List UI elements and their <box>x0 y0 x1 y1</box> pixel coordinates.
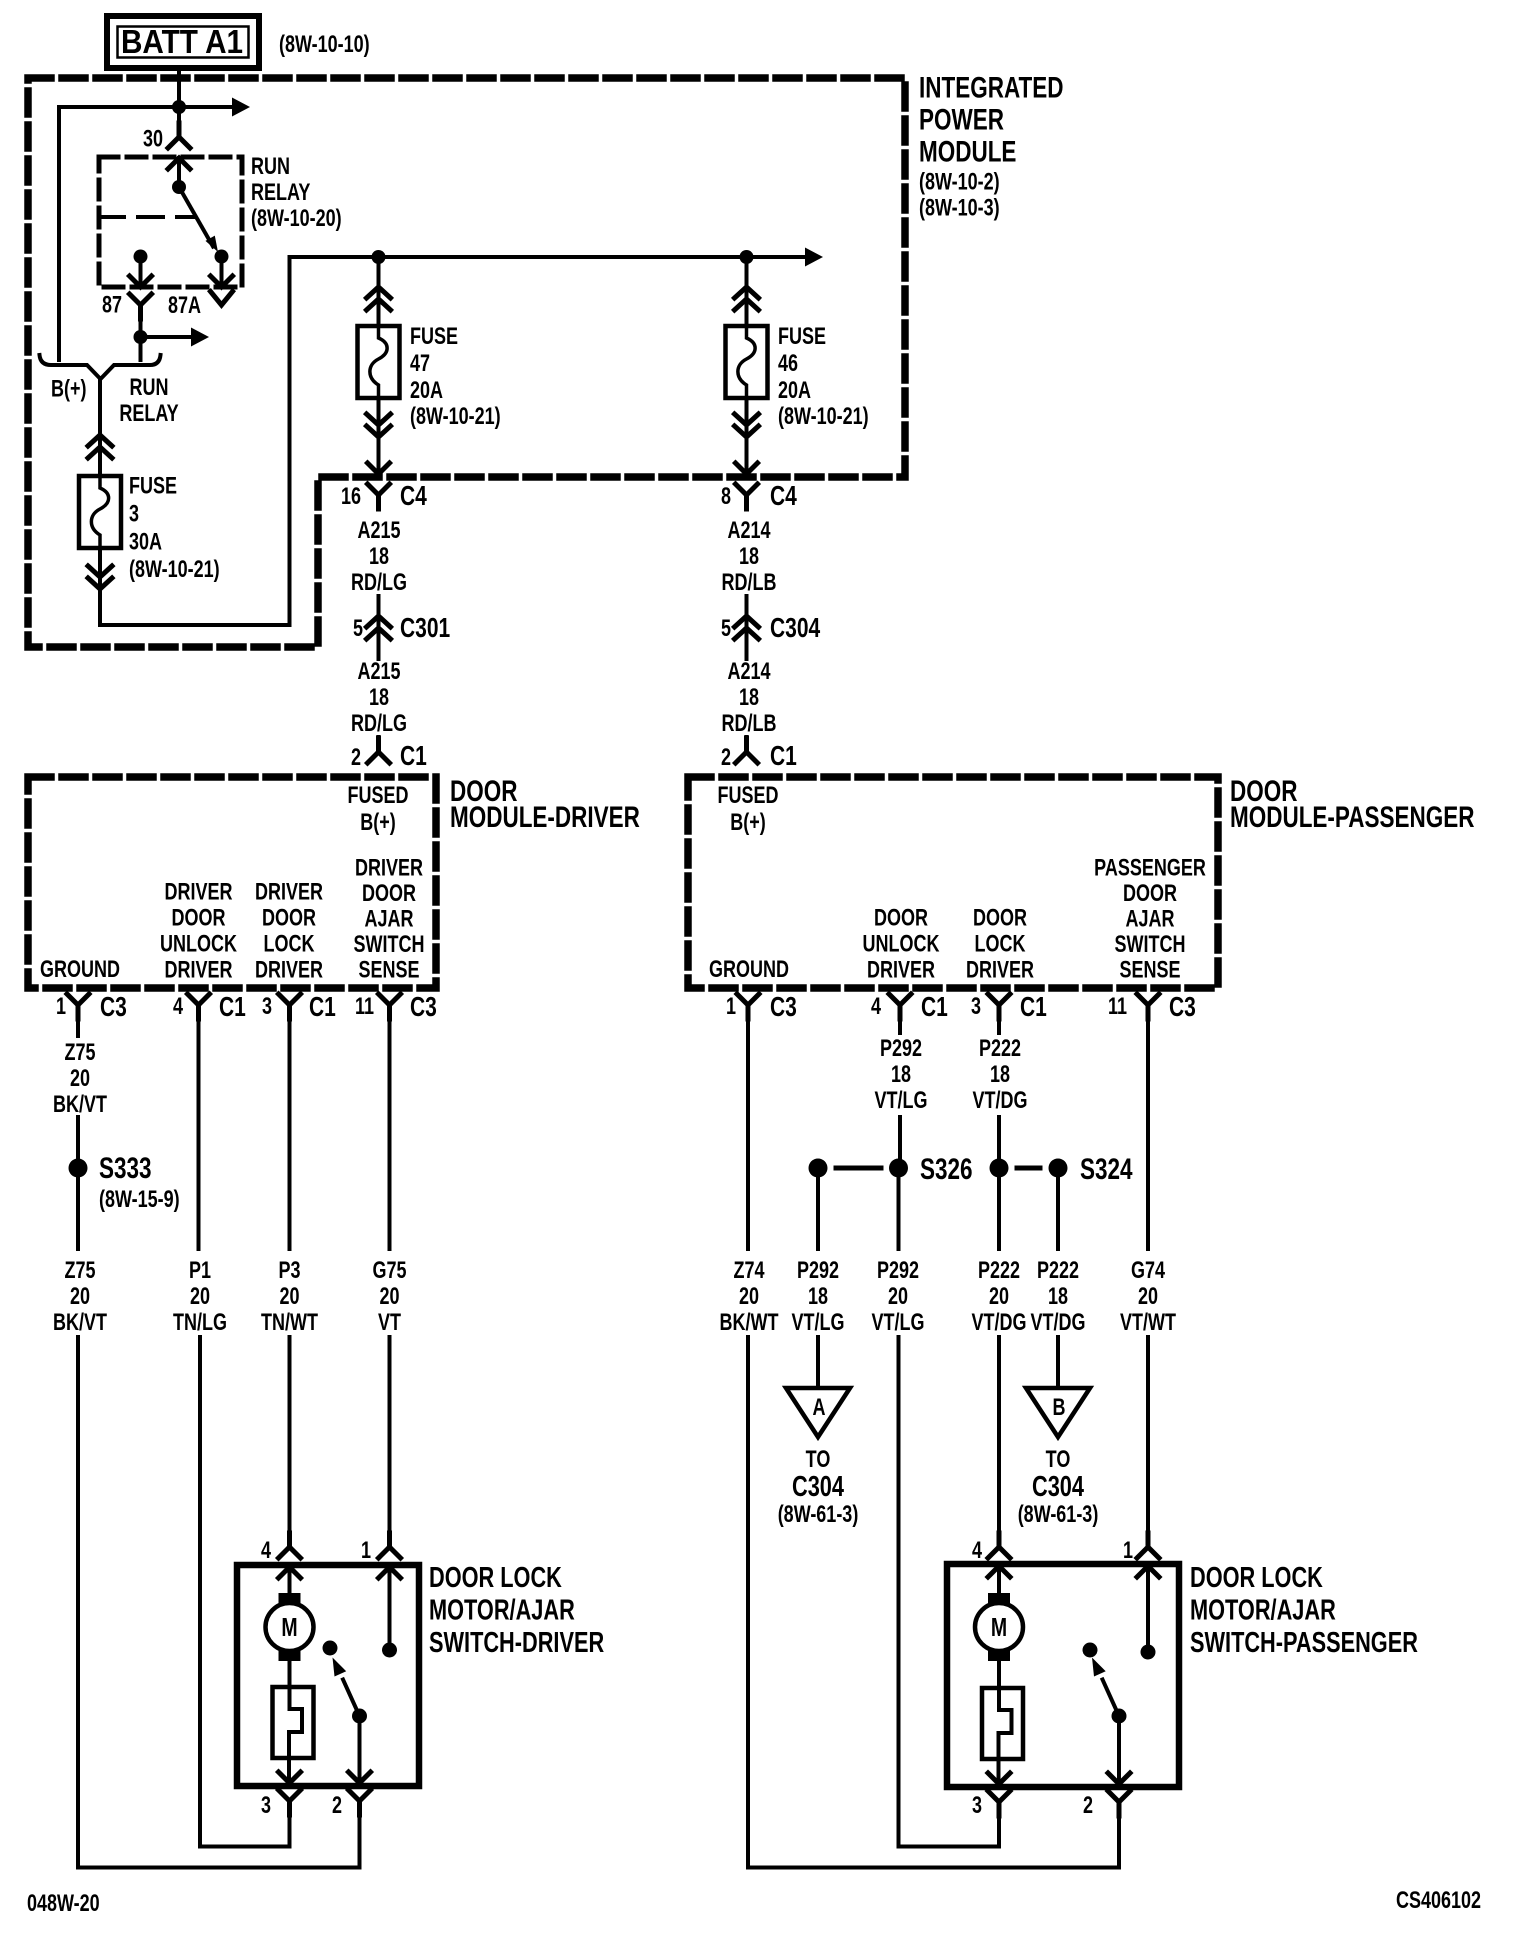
lock motor M driver <box>266 1593 314 1661</box>
wire arm pivot to pin 2 driver <box>349 1716 371 1783</box>
off-page connector B <box>1026 1388 1090 1437</box>
svg-text:C1: C1 <box>309 992 336 1023</box>
svg-text:20: 20 <box>70 1066 90 1092</box>
svg-text:18: 18 <box>369 544 389 570</box>
svg-text:TO: TO <box>806 1447 831 1473</box>
passenger module pin 4 connector fork <box>889 994 911 1019</box>
svg-text:SWITCH-DRIVER: SWITCH-DRIVER <box>429 1627 604 1659</box>
svg-text:3: 3 <box>972 1793 982 1819</box>
svg-text:RD/LG: RD/LG <box>351 711 407 737</box>
svg-text:C304: C304 <box>770 613 820 644</box>
svg-text:DRIVER: DRIVER <box>165 957 233 983</box>
label FUSE 46 20A (8W-10-21) <box>778 324 869 430</box>
svg-text:4: 4 <box>972 1538 982 1564</box>
connector C1 pin 2 fork <box>368 738 390 763</box>
relay coil linkage dashed line <box>99 215 195 219</box>
svg-text:TO: TO <box>1046 1447 1071 1473</box>
svg-text:3: 3 <box>129 501 139 527</box>
svg-text:B(+): B(+) <box>730 810 765 836</box>
svg-text:M: M <box>991 1612 1007 1641</box>
label TO C304 (8W-61-3) right <box>1018 1447 1099 1528</box>
svg-text:DRIVER: DRIVER <box>867 957 935 983</box>
relay contact 87 node <box>134 250 148 264</box>
svg-text:20: 20 <box>70 1284 90 1310</box>
wire bus riser up <box>288 257 292 625</box>
ajar switch housing passenger <box>982 1688 1023 1759</box>
svg-text:SWITCH: SWITCH <box>1115 932 1186 958</box>
svg-text:C4: C4 <box>400 481 427 512</box>
wire P292 18 to off-page connector A <box>816 1337 820 1388</box>
wire fuse 3 output down <box>98 548 102 625</box>
motor pin 1 connector fork driver <box>379 1533 401 1558</box>
pin 87 connector fork <box>130 294 152 319</box>
svg-text:46: 46 <box>778 351 798 377</box>
svg-text:8: 8 <box>721 484 731 510</box>
svg-text:87A: 87A <box>168 293 201 319</box>
label DRIVER DOOR LOCK DRIVER <box>255 879 323 983</box>
wire label P222 20 VT/DG <box>972 1258 1027 1336</box>
wire label Z75 20 BK/VT lower <box>53 1258 107 1336</box>
wire label A215 18 RD/LG upper <box>351 518 407 596</box>
svg-text:11: 11 <box>1108 994 1127 1020</box>
wire G75 ajar sense to motor pin 1 <box>388 1337 392 1533</box>
wire motor to ajar switch driver <box>288 1661 292 1687</box>
svg-text:18: 18 <box>891 1062 911 1088</box>
svg-text:048W-20: 048W-20 <box>27 1891 100 1917</box>
wire P292 20 to motor pin 3 passenger <box>897 1337 901 1847</box>
svg-text:5: 5 <box>721 616 731 642</box>
svg-text:M: M <box>281 1612 297 1641</box>
svg-text:87: 87 <box>102 292 122 318</box>
svg-text:3: 3 <box>971 994 981 1020</box>
svg-text:C1: C1 <box>1020 992 1047 1023</box>
svg-text:20: 20 <box>190 1284 210 1310</box>
wire P222 lock upper segment <box>997 1005 1001 1033</box>
splice S333 <box>69 1159 88 1178</box>
svg-text:P292: P292 <box>877 1258 919 1284</box>
wire into passenger door module <box>745 737 749 752</box>
svg-text:MOTOR/AJAR: MOTOR/AJAR <box>429 1595 575 1627</box>
svg-text:AJAR: AJAR <box>365 906 414 932</box>
svg-text:C1: C1 <box>219 992 246 1023</box>
svg-text:GROUND: GROUND <box>709 957 789 983</box>
svg-text:P3: P3 <box>278 1258 300 1284</box>
label TO C304 (8W-61-3) left <box>778 1447 859 1528</box>
wire P292 20 below splice <box>897 1168 901 1249</box>
label INTEGRATED POWER MODULE (8W-10-2) (8W-10-3) <box>919 70 1064 221</box>
wire chevrons fuse 47 output <box>367 414 391 437</box>
driver module pin 4 connector fork <box>188 994 210 1019</box>
svg-text:SENSE: SENSE <box>358 957 419 983</box>
svg-text:C3: C3 <box>1169 992 1196 1023</box>
svg-text:11: 11 <box>355 994 374 1020</box>
wire P222 to splice S324 <box>997 1117 1001 1168</box>
svg-text:A214: A214 <box>727 518 770 544</box>
motor pin 1 connector fork passenger <box>1137 1533 1159 1558</box>
label DOOR MODULE-DRIVER <box>450 774 640 834</box>
wire Z75 ground to door lock switch <box>76 1337 80 1868</box>
svg-text:(8W-61-3): (8W-61-3) <box>778 1502 859 1528</box>
svg-text:RD/LG: RD/LG <box>351 570 407 596</box>
label FUSED B(+) driver <box>348 783 409 836</box>
svg-text:DRIVER: DRIVER <box>165 879 233 905</box>
svg-text:SWITCH: SWITCH <box>354 932 425 958</box>
wire Z74 ground upper segment <box>746 1005 750 1249</box>
door lock motor/ajar switch-driver box <box>237 1565 419 1786</box>
svg-text:G75: G75 <box>372 1258 406 1284</box>
svg-text:BK/VT: BK/VT <box>53 1310 107 1336</box>
passenger module pin 3 connector fork <box>988 994 1010 1019</box>
svg-text:3: 3 <box>262 994 272 1020</box>
svg-text:20A: 20A <box>778 378 811 404</box>
motor pin 1 terminal arrow passenger <box>1137 1566 1159 1652</box>
wire label P222 18 VT/DG upper <box>973 1036 1028 1114</box>
svg-text:LOCK: LOCK <box>264 931 316 957</box>
svg-text:MODULE-DRIVER: MODULE-DRIVER <box>450 800 640 834</box>
svg-text:4: 4 <box>871 994 881 1020</box>
svg-text:C1: C1 <box>921 992 948 1023</box>
connector C4 pin 8 <box>736 484 758 509</box>
motor pin 1 terminal arrow driver <box>379 1567 401 1650</box>
svg-text:RD/LB: RD/LB <box>722 570 777 596</box>
fuse F46 <box>726 326 768 398</box>
wire into connector C301 <box>377 596 381 659</box>
svg-text:P292: P292 <box>880 1036 922 1062</box>
run relay K1 dashed box <box>99 157 242 287</box>
wire G74 to motor pin 1 passenger <box>1146 1337 1150 1533</box>
relay contact 87A terminal arrow <box>211 257 233 288</box>
arrow fuse 46 wire into connector C4 <box>736 463 758 474</box>
wire chevrons fuse 46 feed <box>735 287 759 310</box>
svg-text:1: 1 <box>361 1538 371 1564</box>
svg-text:C3: C3 <box>100 992 127 1023</box>
svg-text:PASSENGER: PASSENGER <box>1094 855 1206 881</box>
wire P292 unlock upper segment <box>898 1005 902 1033</box>
label RUN RELAY feed <box>119 375 178 427</box>
wire label G75 20 VT <box>372 1258 406 1336</box>
connector C1 pin 2 fork passenger <box>736 738 758 763</box>
motor pin 2 connector fork passenger <box>1108 1791 1130 1816</box>
svg-text:C304: C304 <box>792 1471 845 1503</box>
svg-text:20: 20 <box>989 1284 1009 1310</box>
svg-text:18: 18 <box>739 685 759 711</box>
svg-text:G74: G74 <box>1131 1258 1165 1284</box>
svg-text:FUSED: FUSED <box>718 783 779 809</box>
svg-text:LOCK: LOCK <box>975 931 1027 957</box>
wire fuse 3 output to bus riser <box>100 623 290 627</box>
svg-text:18: 18 <box>369 685 389 711</box>
pin 30 connector fork <box>168 123 190 148</box>
wire ajar switch to pin 3 driver <box>279 1758 301 1783</box>
motor pin 3 connector fork passenger <box>988 1791 1010 1816</box>
passenger module pin 11 connector fork <box>1137 994 1159 1019</box>
ajar switch arm pivot node passenger <box>1112 1709 1127 1724</box>
wire fused B(+) bus with arrow <box>290 248 824 267</box>
wire label P222 18 VT/DG branch <box>1031 1258 1086 1336</box>
svg-text:(8W-10-10): (8W-10-10) <box>279 32 370 58</box>
svg-text:C301: C301 <box>400 613 450 644</box>
wire bus to fuse 46 <box>745 257 749 326</box>
wire fuse 46 output <box>745 398 749 474</box>
wire label A214 18 RD/LB upper <box>722 518 777 596</box>
svg-text:P222: P222 <box>978 1258 1020 1284</box>
svg-text:(8W-10-21): (8W-10-21) <box>410 404 501 430</box>
svg-text:RELAY: RELAY <box>251 180 310 206</box>
svg-text:2: 2 <box>1083 1793 1093 1819</box>
wire Z75 below splice <box>76 1176 80 1249</box>
wire motor pin 2 to ground driver <box>78 1801 360 1868</box>
svg-text:C3: C3 <box>770 992 797 1023</box>
wire B(+) feed down-left <box>57 107 61 360</box>
svg-text:VT/LG: VT/LG <box>875 1088 928 1114</box>
svg-text:S324: S324 <box>1080 1152 1133 1186</box>
ajar switch arm pivot node driver <box>352 1709 367 1724</box>
svg-text:BATT A1: BATT A1 <box>121 24 243 61</box>
relay armature switch arm <box>179 187 218 252</box>
wire G74 ajar sense upper segment <box>1146 1005 1150 1249</box>
svg-text:18: 18 <box>990 1062 1010 1088</box>
junction node run relay output <box>134 330 148 344</box>
motor pin 4 terminal arrow driver <box>279 1567 301 1594</box>
svg-text:VT/DG: VT/DG <box>972 1310 1027 1336</box>
junction node bus to fuse 47 <box>372 250 386 264</box>
svg-text:RELAY: RELAY <box>119 401 178 427</box>
svg-text:S333: S333 <box>99 1151 152 1185</box>
svg-text:VT: VT <box>378 1310 401 1336</box>
svg-text:2: 2 <box>332 1793 342 1819</box>
passenger module pin 1 connector fork <box>737 994 759 1019</box>
svg-text:DRIVER: DRIVER <box>255 957 323 983</box>
svg-text:Z75: Z75 <box>64 1258 95 1284</box>
svg-text:DOOR: DOOR <box>1123 881 1177 907</box>
svg-text:VT/WT: VT/WT <box>1120 1310 1176 1336</box>
wire motor pin 2 to ground passenger <box>748 1802 1119 1868</box>
svg-text:VT/DG: VT/DG <box>973 1088 1028 1114</box>
svg-text:20: 20 <box>888 1284 908 1310</box>
svg-text:DOOR LOCK: DOOR LOCK <box>1190 1562 1323 1594</box>
svg-text:FUSE: FUSE <box>778 324 826 350</box>
svg-text:B: B <box>1053 1395 1066 1421</box>
label RUN RELAY (8W-10-20) <box>251 154 342 232</box>
svg-text:C1: C1 <box>400 741 427 772</box>
relay common contact node <box>172 180 186 194</box>
wire battery bus with arrow right <box>59 98 250 117</box>
pin 87A unconnected connector <box>211 292 233 306</box>
wire G75 ajar sense upper segment <box>388 1005 392 1249</box>
svg-text:20: 20 <box>379 1284 399 1310</box>
svg-text:Z74: Z74 <box>733 1258 764 1284</box>
motor pin 3 connector fork driver <box>279 1790 301 1815</box>
svg-text:(8W-10-20): (8W-10-20) <box>251 206 342 232</box>
svg-text:UNLOCK: UNLOCK <box>863 931 941 957</box>
label DRIVER DOOR UNLOCK DRIVER <box>160 879 238 983</box>
wire motor pin 3 down to junction passenger <box>899 1802 1000 1847</box>
svg-text:RUN: RUN <box>130 375 169 401</box>
svg-text:S326: S326 <box>920 1152 973 1186</box>
svg-text:30: 30 <box>143 126 163 152</box>
ajar switch fixed contact node passenger <box>1083 1643 1098 1658</box>
svg-text:A: A <box>813 1395 826 1421</box>
svg-text:C304: C304 <box>1032 1471 1085 1503</box>
relay contact 87 terminal arrow <box>130 257 152 288</box>
svg-text:AJAR: AJAR <box>1126 906 1175 932</box>
wire fuse 47 output <box>377 398 381 474</box>
svg-text:5: 5 <box>353 616 363 642</box>
svg-text:MODULE: MODULE <box>919 134 1016 168</box>
ajar switch sense contact node driver <box>382 1643 397 1658</box>
lock motor M passenger <box>975 1593 1023 1661</box>
connector C301 pin 5 chevrons <box>367 616 391 639</box>
label DOOR MODULE-PASSENGER <box>1230 774 1474 834</box>
svg-text:FUSE: FUSE <box>129 473 177 499</box>
wire chevrons fuse 3 feed <box>88 435 112 458</box>
label DOOR UNLOCK DRIVER passenger <box>863 905 941 983</box>
label DRIVER DOOR AJAR SWITCH SENSE <box>354 855 425 983</box>
svg-text:20: 20 <box>279 1284 299 1310</box>
svg-text:2: 2 <box>351 745 361 771</box>
svg-text:DOOR: DOOR <box>362 881 416 907</box>
svg-text:(8W-10-21): (8W-10-21) <box>778 404 869 430</box>
svg-text:(8W-61-3): (8W-61-3) <box>1018 1502 1099 1528</box>
wire label P292 18 VT/LG branch <box>792 1258 845 1336</box>
connector C304 pin 5 chevrons <box>735 616 759 639</box>
svg-text:20: 20 <box>739 1284 759 1310</box>
svg-text:C3: C3 <box>410 992 437 1023</box>
door lock motor/ajar switch-passenger box <box>947 1564 1179 1787</box>
svg-text:18: 18 <box>1048 1284 1068 1310</box>
relay pin 30 terminal arrow <box>168 158 190 187</box>
label DOOR LOCK DRIVER passenger <box>966 905 1034 983</box>
wire P222 20 to motor pin 4 passenger <box>997 1337 1001 1533</box>
svg-text:DRIVER: DRIVER <box>355 855 423 881</box>
junction node bus to fuse 46 <box>740 250 754 264</box>
svg-text:UNLOCK: UNLOCK <box>160 931 238 957</box>
svg-text:(8W-10-21): (8W-10-21) <box>129 557 220 583</box>
label S333 (8W-15-9) <box>99 1151 180 1213</box>
label PASSENGER DOOR AJAR SWITCH SENSE <box>1094 855 1206 983</box>
wire Z75 ground upper segment <box>76 1005 80 1036</box>
svg-text:CS406102: CS406102 <box>1396 1888 1481 1914</box>
svg-text:P222: P222 <box>979 1036 1021 1062</box>
ajar switch sense contact node passenger <box>1141 1645 1156 1660</box>
wire pin 87 to junction <box>139 305 143 337</box>
driver module pin 3 connector fork <box>279 994 301 1019</box>
svg-text:B(+): B(+) <box>51 376 86 402</box>
svg-text:MODULE-PASSENGER: MODULE-PASSENGER <box>1230 800 1474 834</box>
svg-text:47: 47 <box>410 351 430 377</box>
wire chevrons fuse 46 output <box>735 414 759 437</box>
svg-text:C1: C1 <box>770 741 797 772</box>
wire P222 18 branch from splice <box>1056 1168 1060 1249</box>
svg-text:16: 16 <box>341 484 361 510</box>
svg-text:20A: 20A <box>410 378 443 404</box>
wire Z75 to splice <box>76 1117 80 1160</box>
wire label P1 20 TN/LG <box>173 1258 227 1336</box>
svg-text:INTEGRATED: INTEGRATED <box>919 70 1064 104</box>
svg-text:P1: P1 <box>189 1258 211 1284</box>
svg-text:C4: C4 <box>770 481 797 512</box>
wire P222 20 below splice <box>997 1168 1001 1249</box>
wire into connector C304 <box>745 596 749 659</box>
wire label P3 20 TN/WT <box>261 1258 318 1336</box>
junction node battery feed <box>172 100 186 114</box>
wire label P292 18 VT/LG upper <box>875 1036 928 1114</box>
svg-text:RUN: RUN <box>251 154 290 180</box>
svg-text:2: 2 <box>721 745 731 771</box>
svg-text:SWITCH-PASSENGER: SWITCH-PASSENGER <box>1190 1627 1418 1659</box>
motor pin 4 connector fork driver <box>279 1533 301 1558</box>
wire chevrons fuse 47 feed <box>367 287 391 310</box>
wire label Z75 20 BK/VT upper <box>53 1040 107 1118</box>
wire into driver door module <box>377 737 381 752</box>
driver module pin 11 connector fork <box>379 994 401 1019</box>
svg-text:DOOR LOCK: DOOR LOCK <box>429 1562 562 1594</box>
svg-text:DOOR: DOOR <box>973 905 1027 931</box>
svg-text:BK/WT: BK/WT <box>720 1310 779 1336</box>
label FUSE 3 30A (8W-10-21) <box>129 473 220 583</box>
wire P3 lock driver to motor pin 4 <box>288 1337 292 1533</box>
ajar switch arm passenger <box>1092 1658 1119 1717</box>
svg-text:DRIVER: DRIVER <box>966 957 1034 983</box>
svg-text:DOOR: DOOR <box>874 905 928 931</box>
wire bus to fuse 47 <box>377 257 381 326</box>
label DOOR LOCK MOTOR/AJAR SWITCH-PASSENGER <box>1190 1562 1418 1659</box>
svg-text:A215: A215 <box>357 659 400 685</box>
wire pin 87 down to bracket <box>139 337 143 360</box>
arrow fuse 47 wire into connector C4 <box>368 463 390 474</box>
ajar switch housing driver <box>273 1687 314 1758</box>
connector C4 pin 16 <box>368 484 390 509</box>
ajar switch arm driver <box>333 1658 360 1717</box>
ajar switch fixed contact node driver <box>323 1641 338 1656</box>
svg-text:POWER: POWER <box>919 102 1004 136</box>
svg-text:SENSE: SENSE <box>1119 957 1180 983</box>
svg-text:1: 1 <box>726 994 736 1020</box>
relay contact 87A node <box>215 250 229 264</box>
svg-text:DOOR: DOOR <box>172 905 226 931</box>
off-page connector A <box>786 1388 850 1437</box>
wire arm pivot to pin 2 passenger <box>1108 1716 1130 1784</box>
label DOOR LOCK MOTOR/AJAR SWITCH-DRIVER <box>429 1562 604 1659</box>
svg-text:DOOR: DOOR <box>262 905 316 931</box>
svg-text:BK/VT: BK/VT <box>53 1092 107 1118</box>
wire run relay output arrow right <box>141 328 210 347</box>
wire P1 unlock driver lower segment <box>198 1337 202 1847</box>
svg-text:TN/WT: TN/WT <box>261 1310 318 1336</box>
wire label G74 20 VT/WT <box>1120 1258 1176 1336</box>
wire pin 30 into relay <box>177 107 181 137</box>
wire motor pin 3 to unlock driver <box>200 1801 290 1847</box>
door module-passenger dashed box <box>688 777 1218 988</box>
svg-text:20: 20 <box>1138 1284 1158 1310</box>
svg-text:RD/LB: RD/LB <box>722 711 777 737</box>
splice S324 <box>990 1159 1068 1178</box>
svg-text:4: 4 <box>261 1538 271 1564</box>
wire P1 unlock driver upper segment <box>197 1005 201 1249</box>
svg-text:A214: A214 <box>727 659 770 685</box>
motor pin 4 connector fork passenger <box>988 1533 1010 1558</box>
svg-text:P292: P292 <box>797 1258 839 1284</box>
fuse F47 <box>358 326 400 398</box>
svg-text:P222: P222 <box>1037 1258 1079 1284</box>
svg-text:3: 3 <box>261 1793 271 1819</box>
svg-text:4: 4 <box>173 994 183 1020</box>
svg-text:1: 1 <box>56 994 66 1020</box>
motor pin 2 connector fork driver <box>349 1790 371 1815</box>
wire label A214 18 RD/LB lower <box>722 659 777 737</box>
driver module pin 1 connector fork <box>67 994 89 1019</box>
wire label A215 18 RD/LG lower <box>351 659 407 737</box>
